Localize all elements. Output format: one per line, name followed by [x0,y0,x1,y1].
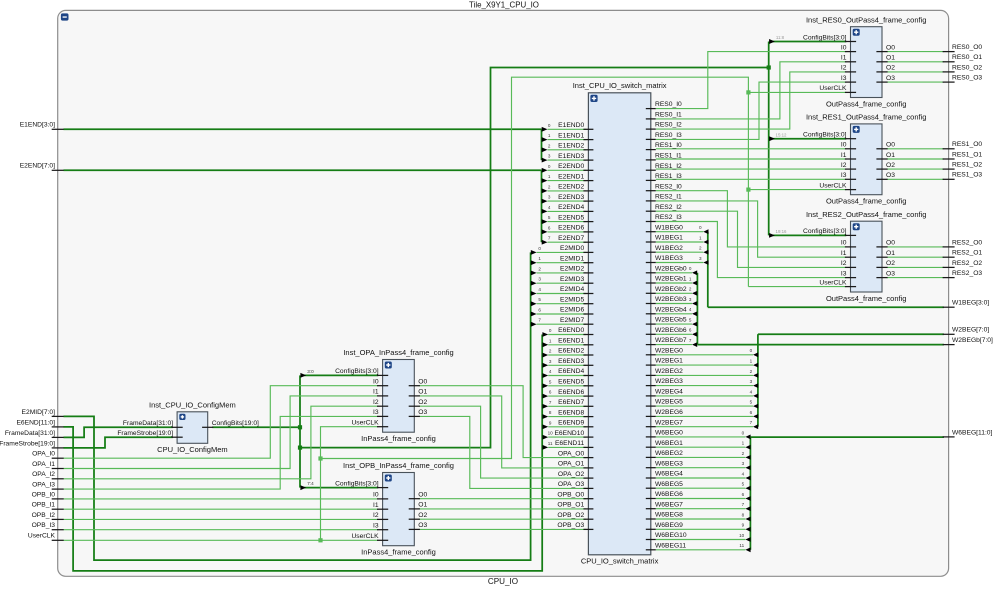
frame port E2MID[7:0] (left) [52,415,64,417]
svg-text:I1: I1 [373,389,379,396]
net E2END4 bit wire [548,210,587,212]
net RES1_I1 [656,158,846,160]
net RES2_O2 [887,266,944,268]
svg-text:W2BEG4: W2BEG4 [655,389,683,396]
pin I3 of Inst_OPB_InPass4_frame_config [377,529,388,531]
svg-text:UserCLK: UserCLK [819,85,847,92]
svg-text:3: 3 [549,359,552,364]
module Inst_RES2_OutPass4_frame_config [851,221,883,292]
svg-text:OutPass4_frame_config: OutPass4_frame_config [826,294,906,303]
pin E6END1 of switch matrix (left) [583,344,593,346]
net W2BEGb1 bit wire [656,282,692,284]
net W2BEGb0 bit wire [656,272,692,274]
svg-text:0: 0 [742,430,745,435]
svg-text:FrameData[31:0]: FrameData[31:0] [123,420,173,427]
net E6END9 bit wire [548,426,586,428]
svg-text:Inst_RES1_OutPass4_frame_confi: Inst_RES1_OutPass4_frame_config [806,113,926,122]
net UserCLK branch to RES1 [748,189,846,191]
net RES2_I0 [656,191,846,247]
junction ConfigBits at (300,448) [298,446,302,450]
junction UserCLK at (320.5,458.5) [318,456,322,460]
pin W6BEG11 of switch matrix (right) [646,549,656,551]
svg-text:W1BEG1: W1BEG1 [655,235,683,242]
svg-text:E6END2: E6END2 [558,348,584,355]
svg-text:OPB_O3: OPB_O3 [557,522,584,529]
pin E6END4 of switch matrix (left) [583,375,593,377]
svg-text:1: 1 [548,133,551,138]
net E2MID0 bit wire [537,251,587,253]
svg-text:E2MID6: E2MID6 [560,307,584,314]
svg-text:Tile_X9Y1_CPU_IO: Tile_X9Y1_CPU_IO [469,1,539,10]
svg-text:ConfigBits[19:0]: ConfigBits[19:0] [212,420,259,427]
svg-text:1: 1 [742,441,745,446]
svg-text:E1END3: E1END3 [558,153,584,160]
svg-text:E6END[11:0]: E6END[11:0] [16,419,55,426]
pin O0 of Inst_OPB_InPass4_frame_config [409,498,420,500]
pin W1BEG0 of switch matrix (right) [646,231,656,233]
svg-text:OPA_O0: OPA_O0 [558,450,585,457]
pin E2MID5 of switch matrix (left) [583,303,593,305]
pin O0 of Inst_OPA_InPass4_frame_config [409,385,420,387]
pin I1 of Inst_RES2_OutPass4_frame_config [845,256,856,258]
frame port E1END[3:0] (left) [52,128,64,130]
pin I1 of Inst_OPB_InPass4_frame_config [377,508,388,510]
junction UserCLK at (748.2,188.9) [746,188,750,192]
pin OPB_O0 of switch matrix (left) [583,498,593,500]
pin W2BEGb5 of switch matrix (right) [646,323,656,325]
net RES0_I3 [656,82,846,139]
svg-text:6: 6 [548,225,551,230]
pin E2END4 of switch matrix (left) [583,210,593,212]
svg-text:W2BEG5: W2BEG5 [655,399,683,406]
svg-text:OPB_O0: OPB_O0 [557,491,584,498]
svg-text:6: 6 [742,492,745,497]
net W1BEG3 bit wire [656,262,703,264]
pin FrameData[31:0] of Inst_CPU_IO_ConfigMem [172,426,183,428]
svg-text:I0: I0 [373,492,379,499]
pin E2END1 of switch matrix (left) [583,180,593,182]
net E2END2 bit wire [548,190,587,192]
pin W2BEG2 of switch matrix (right) [646,374,656,376]
svg-text:W6BEG[11:0]: W6BEG[11:0] [952,429,993,436]
svg-text:W2BEG2: W2BEG2 [655,368,683,375]
svg-text:4: 4 [689,307,692,312]
net W2BEG1 bit wire [656,364,753,366]
net W2BEG3 bit wire [656,385,753,387]
pin I3 of Inst_RES0_OutPass4_frame_config [845,81,856,83]
pin W6BEG9 of switch matrix (right) [646,528,656,530]
net E6END10 bit wire [548,436,586,438]
pin RES2_I2 of switch matrix (right) [646,210,656,212]
svg-text:5: 5 [750,400,753,405]
pin E6END9 of switch matrix (left) [583,426,593,428]
net RES0_I2 [656,72,846,129]
net W1BEG0 bit wire [656,231,703,233]
net E2MID5 bit wire [537,303,587,305]
svg-text:O1: O1 [886,55,895,62]
net UserCLK branch to RES2 [748,286,846,288]
net E1END0 bit wire [548,128,587,130]
pin I2 of Inst_OPA_InPass4_frame_config [377,405,388,407]
frame port RES1_O2 (right) [943,168,955,170]
net W2BEG5 bit wire [656,405,753,407]
frame port W1BEG[3:0] (right) [943,306,955,308]
svg-text:O0: O0 [418,379,427,386]
net W6BEG10 bit wire [656,539,746,541]
bus join W2BEG vertical [757,334,759,427]
svg-text:E2MID3: E2MID3 [560,276,584,283]
svg-text:E2MID1: E2MID1 [560,255,584,262]
net W2BEG2 bit wire [656,374,753,376]
net RES0_I1 [656,62,846,119]
pin ConfigBits[3:0] of Inst_RES1_OutPass4_frame_config [845,138,856,140]
svg-text:W6BEG7: W6BEG7 [655,501,683,508]
net E1END1 bit wire [548,139,587,141]
junction ConfigBits at (768.7,67.5) [767,65,771,69]
net E6END5 bit wire [548,385,586,387]
svg-text:E2MID5: E2MID5 [560,296,584,303]
svg-text:Inst_CPU_IO_switch_matrix: Inst_CPU_IO_switch_matrix [573,81,667,90]
bus W2BEG[7:0] trunk [758,333,944,335]
pin W2BEGb1 of switch matrix (right) [646,282,656,284]
pin O3 of Inst_RES1_OutPass4_frame_config [876,178,887,180]
svg-text:OPA_O3: OPA_O3 [558,481,585,488]
pin O2 of Inst_OPB_InPass4_frame_config [409,518,420,520]
pin O2 of Inst_OPA_InPass4_frame_config [409,405,420,407]
pin RES1_I0 of switch matrix (right) [646,149,656,151]
net W6BEG5 bit wire [656,487,746,489]
svg-text:OPA_I1: OPA_I1 [32,461,55,468]
net E2END0 bit wire [548,169,587,171]
svg-text:6: 6 [689,328,692,333]
frame port RES2_O2 (right) [943,266,955,268]
pin W1BEG1 of switch matrix (right) [646,241,656,243]
net E2END3 bit wire [548,200,587,202]
svg-text:0: 0 [750,348,753,353]
svg-text:W2BEGb1: W2BEGb1 [655,276,687,283]
svg-text:11:8: 11:8 [776,35,785,40]
net E6END4 bit wire [548,375,586,377]
svg-text:FrameData[31:0]: FrameData[31:0] [5,430,55,437]
net W1BEG1 bit wire [656,241,703,243]
pin O2 of Inst_RES1_OutPass4_frame_config [876,168,887,170]
net E6END8 bit wire [548,416,586,418]
svg-text:W2BEGb3: W2BEGb3 [655,296,687,303]
svg-text:W2BEGb6: W2BEGb6 [655,327,687,334]
net W6BEG3 bit wire [656,467,746,469]
pin RES1_I1 of switch matrix (right) [646,159,656,161]
pin W2BEGb2 of switch matrix (right) [646,292,656,294]
net RES1_O1 [887,158,944,160]
svg-text:W2BEG0: W2BEG0 [655,347,683,354]
net E6END3 bit wire [548,364,586,366]
net UserCLK vertical at x=748.2 [747,92,749,286]
svg-text:W2BEGb4: W2BEGb4 [655,306,687,313]
net E2END7 bit wire [548,241,587,243]
svg-text:W6BEG10: W6BEG10 [655,532,687,539]
net RES1_I2 [656,168,846,170]
svg-text:E6END0: E6END0 [558,327,584,334]
svg-text:RES1_O2: RES1_O2 [952,162,982,169]
net E2MID6 bit wire [537,313,587,315]
pin O3 of Inst_RES2_OutPass4_frame_config [876,277,887,279]
svg-text:4: 4 [549,369,552,374]
frame port RES2_O3 (right) [943,277,955,279]
net W6BEG11 bit wire [656,549,746,551]
frame port W2BEGb[7:0] (right) [943,344,955,346]
frame port RES2_O1 (right) [943,256,955,258]
svg-text:I1: I1 [841,250,847,257]
net OPB_O2 to switch matrix [419,518,587,520]
pin RES0_I1 of switch matrix (right) [646,118,656,120]
pin W6BEG10 of switch matrix (right) [646,539,656,541]
svg-text:6: 6 [549,390,552,395]
pin O3 of Inst_OPA_InPass4_frame_config [409,415,420,417]
net W2BEG4 bit wire [656,395,753,397]
svg-text:O1: O1 [418,502,427,509]
svg-text:6: 6 [538,308,541,313]
pin O0 of Inst_RES0_OutPass4_frame_config [876,51,887,53]
svg-text:OutPass4_frame_config: OutPass4_frame_config [826,197,906,206]
svg-text:E6END7: E6END7 [558,399,584,406]
svg-text:O0: O0 [886,240,895,247]
pin UserCLK of Inst_RES2_OutPass4_frame_config [845,286,856,288]
pin E6END5 of switch matrix (left) [583,385,593,387]
pin O3 of Inst_RES0_OutPass4_frame_config [876,81,887,83]
net UserCLK vertical to OPA [321,427,379,541]
svg-text:8: 8 [549,410,552,415]
svg-text:E2MID7: E2MID7 [560,317,584,324]
collapse icon Inst_OPB_InPass4_frame_config [385,475,392,482]
net OPB_O1 to switch matrix [419,508,587,510]
pin I2 of Inst_RES1_OutPass4_frame_config [845,168,856,170]
svg-text:E6END5: E6END5 [558,379,584,386]
pin W6BEG8 of switch matrix (right) [646,518,656,520]
svg-text:ConfigBits[3:0]: ConfigBits[3:0] [803,132,847,139]
svg-text:5: 5 [549,379,552,384]
svg-text:RES0_O3: RES0_O3 [952,75,982,82]
svg-text:RES0_O1: RES0_O1 [952,54,982,61]
collapse icon Inst_CPU_IO_switch_matrix [590,95,597,102]
pin I3 of Inst_RES1_OutPass4_frame_config [845,178,856,180]
svg-text:RES1_I3: RES1_I3 [655,173,682,180]
svg-text:W2BEGb2: W2BEGb2 [655,286,687,293]
frame port OPA_I1 (left) [52,468,64,470]
svg-text:W2BEGb5: W2BEGb5 [655,317,687,324]
bus FrameStrobe[19:0] [64,437,173,448]
net W6BEG6 bit wire [656,498,746,500]
pin I2 of Inst_RES2_OutPass4_frame_config [845,266,856,268]
net E2END5 bit wire [548,221,587,223]
svg-text:OPB_I3: OPB_I3 [32,522,56,529]
net E6END11 bit wire [548,446,586,448]
svg-text:I0: I0 [841,44,847,51]
frame port W6BEG[11:0] (right) [943,436,955,438]
svg-text:E6END8: E6END8 [558,409,584,416]
svg-text:W6BEG8: W6BEG8 [655,512,683,519]
svg-text:E2MID0: E2MID0 [560,245,584,252]
svg-text:CPU_IO_switch_matrix: CPU_IO_switch_matrix [581,557,659,566]
pin E1END3 of switch matrix (left) [583,159,593,161]
svg-text:RES0_O0: RES0_O0 [952,44,982,51]
svg-text:5: 5 [742,482,745,487]
svg-text:7: 7 [750,420,753,425]
net E2END1 bit wire [548,180,587,182]
pin O3 of Inst_OPB_InPass4_frame_config [409,528,420,530]
svg-text:3: 3 [699,256,702,261]
svg-text:ConfigBits[3:0]: ConfigBits[3:0] [335,368,379,375]
bus tap ConfigBits[11:8] to RES0 [771,41,846,43]
svg-text:2: 2 [548,143,551,148]
bus E2END[7:0] trunk [64,169,542,171]
bus E1END[3:0] trunk [64,128,542,130]
pin W6BEG2 of switch matrix (right) [646,456,656,458]
pin W1BEG2 of switch matrix (right) [646,251,656,253]
svg-text:OPA_I2: OPA_I2 [32,471,55,478]
svg-text:E2END0: E2END0 [558,163,584,170]
svg-text:W2BEGb[7:0]: W2BEGb[7:0] [952,337,993,344]
net RES0_O3 [887,81,944,83]
pin W2BEGb0 of switch matrix (right) [646,272,656,274]
pin E6END0 of switch matrix (left) [583,334,593,336]
svg-text:2: 2 [538,266,541,271]
net W6BEG1 bit wire [656,446,746,448]
pin W2BEG7 of switch matrix (right) [646,426,656,428]
svg-text:OPA_O1: OPA_O1 [558,461,585,468]
frame port OPB_I3 (left) [52,529,64,531]
pin W2BEG1 of switch matrix (right) [646,364,656,366]
svg-text:O1: O1 [886,152,895,159]
svg-text:W2BEG[7:0]: W2BEG[7:0] [952,327,989,334]
svg-text:RES0_O2: RES0_O2 [952,64,982,71]
svg-text:O1: O1 [886,250,895,257]
svg-text:E6END11: E6END11 [555,440,585,447]
net W2BEGb3 bit wire [656,303,692,305]
svg-text:7: 7 [549,400,552,405]
svg-text:InPass4_frame_config: InPass4_frame_config [361,548,436,557]
net E1END2 bit wire [548,149,587,151]
pin ConfigBits[19:0] of Inst_CPU_IO_ConfigMem [202,426,213,428]
pin W1BEG3 of switch matrix (right) [646,262,656,264]
svg-text:W2BEGb7: W2BEGb7 [655,337,687,344]
svg-text:I3: I3 [841,172,847,179]
svg-text:0: 0 [538,246,541,251]
pin W6BEG3 of switch matrix (right) [646,467,656,469]
svg-text:W6BEG3: W6BEG3 [655,460,683,467]
net W6BEG8 bit wire [656,518,746,520]
pin E2MID7 of switch matrix (left) [583,323,593,325]
net W2BEGb4 bit wire [656,313,692,315]
pin E6END6 of switch matrix (left) [583,395,593,397]
net RES0_O2 [887,71,944,73]
net E2END6 bit wire [548,231,587,233]
pin O1 of Inst_RES0_OutPass4_frame_config [876,61,887,63]
svg-text:5: 5 [538,297,541,302]
pin W2BEG6 of switch matrix (right) [646,415,656,417]
svg-text:11: 11 [739,543,744,548]
pin E2END6 of switch matrix (left) [583,231,593,233]
bus ConfigBits vertical at x=768.7 [768,42,770,236]
frame port OPB_I2 (left) [52,518,64,520]
svg-text:InPass4_frame_config: InPass4_frame_config [361,434,436,443]
svg-text:W6BEG9: W6BEG9 [655,522,683,529]
pin E2END0 of switch matrix (left) [583,169,593,171]
pin E2END2 of switch matrix (left) [583,190,593,192]
pin E6END7 of switch matrix (left) [583,405,593,407]
net OPB_I2 [64,518,379,520]
pin OPB_O2 of switch matrix (left) [583,518,593,520]
pin E2MID2 of switch matrix (left) [583,272,593,274]
svg-text:6: 6 [750,410,753,415]
net RES2_I1 [656,201,846,257]
svg-text:E2END7: E2END7 [558,235,584,242]
svg-text:RES2_I2: RES2_I2 [655,204,682,211]
collapse icon Inst_RES2_OutPass4_frame_config [853,223,860,230]
bus join W1BEG vertical [707,232,709,308]
svg-text:W2BEG1: W2BEG1 [655,358,683,365]
svg-text:3:0: 3:0 [307,369,314,374]
module Inst_OPB_InPass4_frame_config [383,473,415,546]
svg-text:E6END10: E6END10 [554,430,584,437]
svg-text:I1: I1 [373,502,379,509]
svg-text:UserCLK: UserCLK [819,279,847,286]
pin W2BEG5 of switch matrix (right) [646,405,656,407]
svg-text:W6BEG2: W6BEG2 [655,450,683,457]
pin RES2_I1 of switch matrix (right) [646,200,656,202]
net RES1_I3 [656,178,846,180]
net RES1_O3 [887,178,944,180]
svg-text:1: 1 [699,235,702,240]
pin W2BEGb4 of switch matrix (right) [646,313,656,315]
svg-text:OPB_O1: OPB_O1 [557,502,584,509]
svg-text:0: 0 [549,328,552,333]
svg-text:W1BEG0: W1BEG0 [655,224,683,231]
pin FrameStrobe[19:0] of Inst_CPU_IO_ConfigMem [172,436,183,438]
svg-text:7: 7 [742,502,745,507]
svg-text:0: 0 [548,164,551,169]
junction UserCLK at (320.5,540.3) [318,538,322,542]
net E2MID3 bit wire [537,282,587,284]
pin I0 of Inst_RES2_OutPass4_frame_config [845,246,856,248]
svg-text:I3: I3 [841,75,847,82]
svg-text:W1BEG2: W1BEG2 [655,245,683,252]
pin ConfigBits[3:0] of Inst_RES0_OutPass4_frame_config [845,41,856,43]
net W2BEG7 bit wire [656,426,753,428]
svg-text:O2: O2 [418,399,427,406]
net OPA_I3 [64,416,379,489]
svg-text:9: 9 [549,420,552,425]
svg-text:0: 0 [699,225,702,230]
svg-text:11: 11 [548,441,553,446]
svg-text:E1END[3:0]: E1END[3:0] [20,122,55,129]
svg-text:OPB_O2: OPB_O2 [557,512,584,519]
svg-text:O3: O3 [886,75,895,82]
svg-text:E2MID[7:0]: E2MID[7:0] [22,409,56,416]
svg-text:5: 5 [548,215,551,220]
svg-text:O0: O0 [886,44,895,51]
bus ConfigBits branch to OutPass blocks [300,68,769,448]
pin E2END7 of switch matrix (left) [583,241,593,243]
svg-text:W6BEG11: W6BEG11 [655,542,686,549]
pin OPA_O0 of switch matrix (left) [583,457,593,459]
pin I1 of Inst_RES0_OutPass4_frame_config [845,61,856,63]
collapse icon Inst_RES1_OutPass4_frame_config [853,126,860,133]
pin O0 of Inst_RES1_OutPass4_frame_config [876,148,887,150]
net E6END7 bit wire [548,405,586,407]
pin I0 of Inst_OPA_InPass4_frame_config [377,385,388,387]
svg-text:OPB_I1: OPB_I1 [32,502,56,509]
pin RES2_I3 of switch matrix (right) [646,221,656,223]
